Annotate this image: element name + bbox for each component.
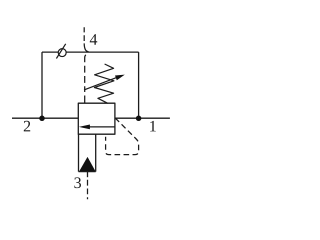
wire port 2 line	[12, 117, 78, 119]
poppet triangle	[79, 157, 95, 171]
wire port 1 line	[115, 117, 170, 119]
flow arrow shaft inside valve	[89, 126, 115, 128]
wire top line left segment	[42, 51, 58, 53]
node junction dot port 1	[136, 116, 142, 122]
wire right vertical riser	[138, 52, 140, 118]
label port 4	[90, 34, 97, 45]
valve main body B1	[78, 103, 115, 134]
port 3 line dashed	[87, 180, 89, 200]
spring adjustment arrow shaft	[84, 78, 117, 90]
label port 2	[24, 121, 30, 132]
flow arrow head	[79, 125, 90, 130]
port 3 line solid stub	[87, 172, 89, 178]
adjustable spring	[94, 64, 114, 103]
pilot line port 4 dashed lower	[85, 55, 86, 103]
node junction dot port 2	[39, 116, 45, 122]
lower body right edge	[95, 134, 97, 171]
label port 3	[74, 177, 81, 188]
spring adjustment arrow head	[115, 75, 125, 81]
lower body bottom edge	[79, 171, 96, 173]
label port 1	[150, 121, 156, 132]
wire top line right segment	[66, 51, 138, 53]
orifice O1 circle	[58, 49, 66, 57]
pilot line to port 1 dashed	[106, 118, 139, 155]
orifice O1 diagonal	[56, 44, 65, 59]
wire left vertical riser	[41, 52, 43, 118]
pilot line port 4 dashed upper	[84, 27, 88, 52]
lower body left edge	[78, 134, 80, 171]
